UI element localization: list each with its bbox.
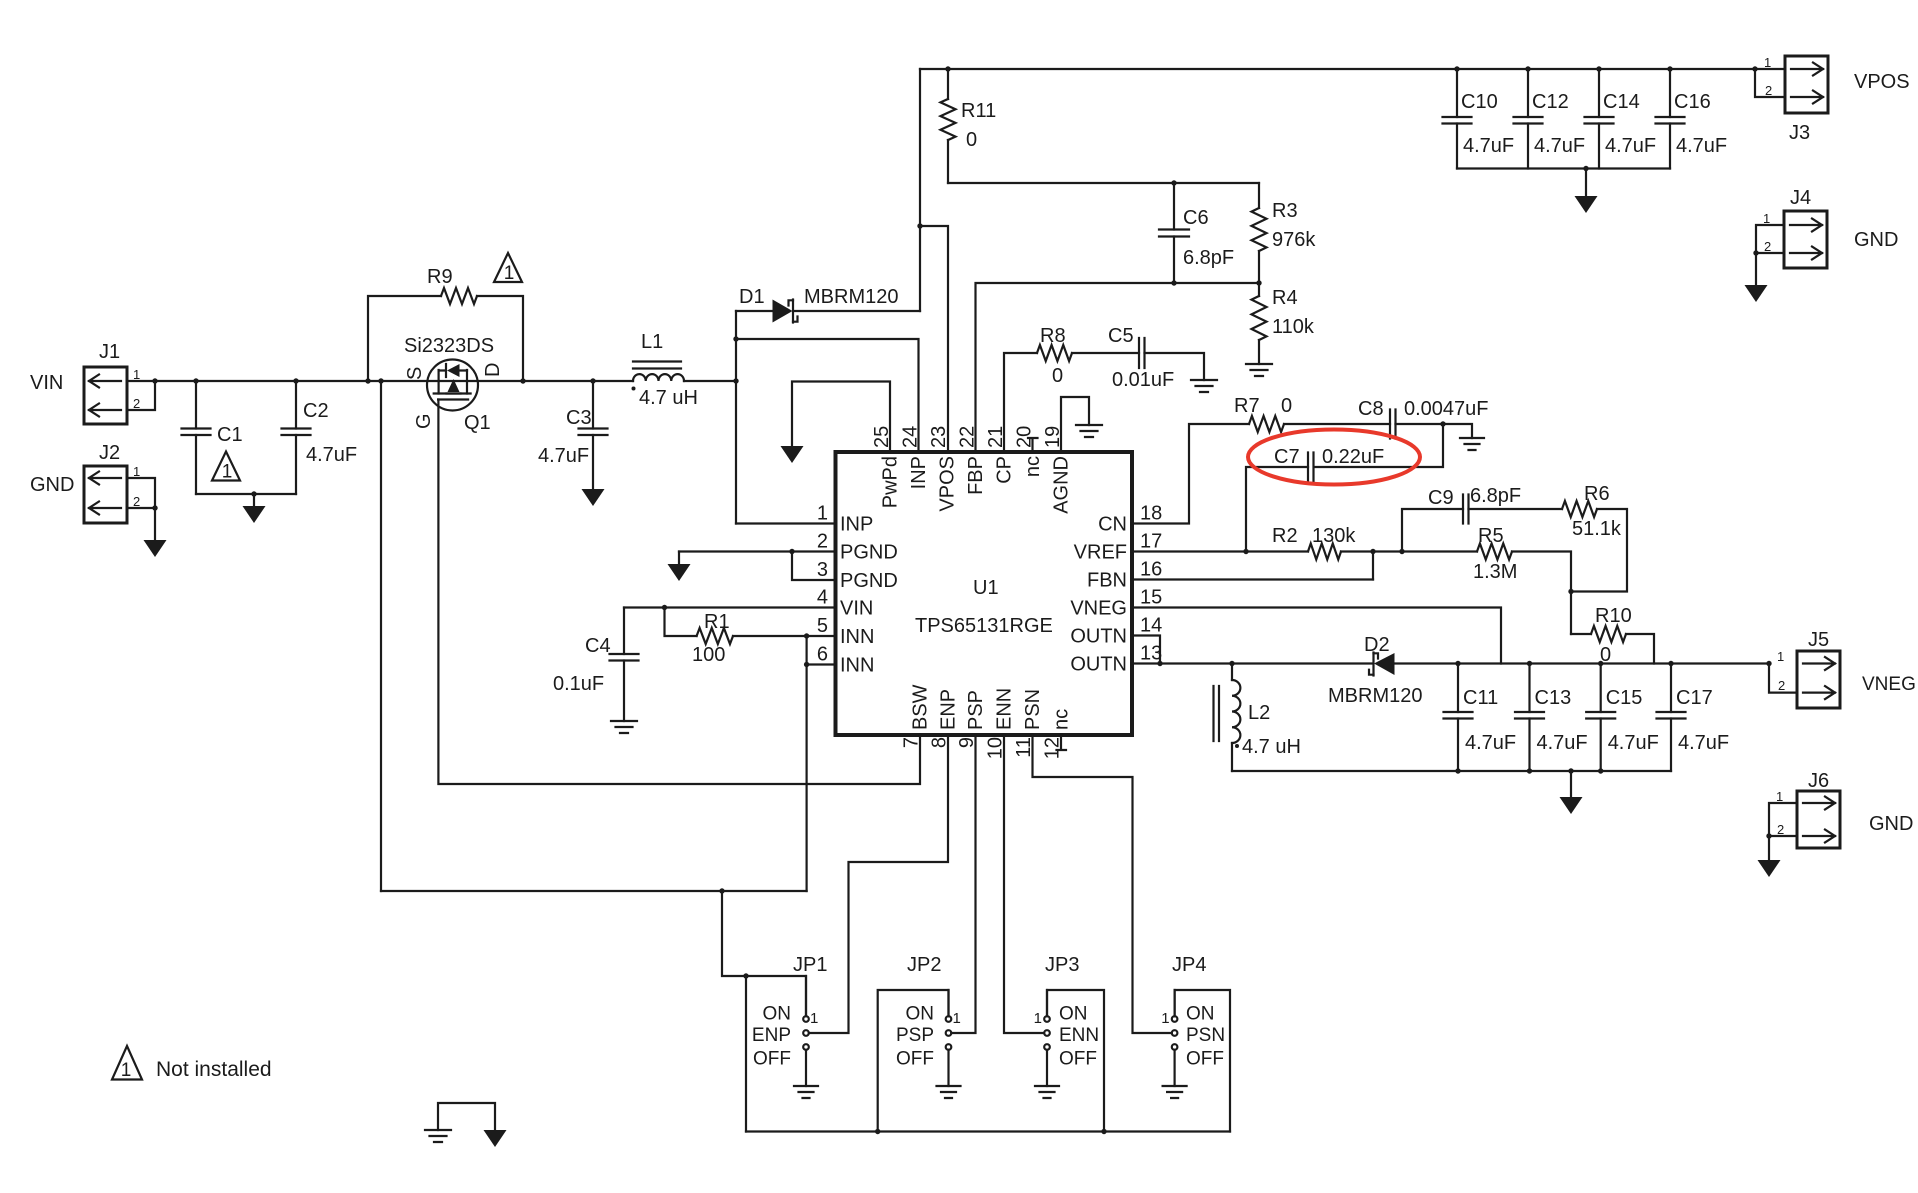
wire C8 to ground: [1396, 424, 1473, 438]
node INN pin6 tap: [804, 662, 809, 667]
node C2 tap: [293, 378, 298, 383]
wire VPOS gnd stub: [1585, 169, 1587, 197]
wire FBN drop: [1372, 552, 1374, 580]
svg-text:CP: CP: [994, 456, 1016, 484]
ground (IEC) R4: [1246, 364, 1272, 376]
connector J4: [1763, 187, 1898, 268]
transistor Q1 Si2323DS: [427, 360, 478, 411]
ground (IEC) JP3 OFF: [1035, 1086, 1059, 1098]
node C12 top tap: [1525, 66, 1530, 71]
wire VNEG caps ground rail: [1232, 770, 1671, 772]
svg-text:R2: R2: [1272, 525, 1298, 547]
node VPOS pin jog: [917, 223, 922, 228]
svg-text:C13: C13: [1535, 687, 1572, 709]
svg-text:C4: C4: [585, 635, 611, 657]
svg-text:20: 20: [1014, 426, 1036, 448]
wire C1 bottom lead: [195, 435, 197, 494]
svg-text:INP: INP: [840, 514, 873, 536]
svg-text:6: 6: [817, 644, 828, 666]
wire JP4 feed: [1175, 990, 1230, 1132]
svg-text:PwPd: PwPd: [880, 456, 902, 508]
wire INN pin5 link: [807, 635, 836, 637]
svg-text:3: 3: [817, 559, 828, 581]
op-amp U1 TPS65131RGE (IC body): [836, 452, 1133, 735]
wire C16 bottom lead: [1669, 124, 1671, 169]
svg-text:R10: R10: [1595, 605, 1632, 627]
svg-text:JP2: JP2: [907, 954, 941, 976]
ground (arrow) PwPd: [781, 446, 804, 463]
svg-text:1: 1: [817, 503, 828, 525]
capacitor C16: [1656, 117, 1685, 124]
wire PGND ground stub: [678, 552, 680, 565]
ground (IEC) JP2 OFF: [937, 1086, 961, 1098]
connector J2: [30, 442, 140, 523]
svg-text:0: 0: [1052, 365, 1063, 387]
svg-text:S: S: [404, 367, 426, 380]
svg-text:C3: C3: [566, 407, 592, 429]
ground (arrow) J4: [1745, 285, 1768, 302]
svg-text:4.7uF: 4.7uF: [1608, 732, 1659, 754]
svg-text:GND: GND: [1869, 813, 1913, 835]
svg-text:ENP: ENP: [752, 1025, 791, 1046]
ground (IEC) C5: [1191, 380, 1217, 392]
resistor R11: [941, 99, 956, 140]
wire VNEG pin line: [1132, 608, 1501, 664]
wire J6 pin1 jog: [1769, 803, 1797, 836]
node cap gnd tap: [1598, 768, 1603, 773]
svg-text:nc: nc: [1022, 456, 1044, 477]
svg-text:JP3: JP3: [1045, 954, 1079, 976]
wire INP pin24 link: [736, 339, 919, 452]
wire INN rail: [805, 636, 807, 891]
svg-text:PGND: PGND: [840, 542, 898, 564]
pin 12 nc stub: [1057, 735, 1067, 750]
resistor R3: [1252, 208, 1267, 251]
wire pin1 INP link: [736, 522, 836, 524]
resistor R1: [697, 628, 733, 644]
wire C7 right leg: [1314, 424, 1443, 467]
svg-text:100: 100: [692, 644, 725, 666]
wire C9 to R6: [1469, 508, 1563, 510]
capacitor C12: [1514, 117, 1543, 124]
svg-text:22: 22: [957, 426, 979, 448]
wire R10 right lead: [1626, 634, 1654, 664]
svg-text:GND: GND: [1854, 229, 1898, 251]
svg-text:1: 1: [953, 1010, 961, 1027]
svg-text:PSN: PSN: [1186, 1025, 1225, 1046]
svg-text:PGND: PGND: [840, 570, 898, 592]
svg-text:1: 1: [1764, 55, 1771, 70]
node C1 tap: [193, 378, 198, 383]
node J1 junction: [152, 378, 157, 383]
svg-text:2: 2: [1777, 822, 1784, 837]
wire C16 top lead: [1669, 69, 1671, 117]
wire AGND pin 19: [1061, 397, 1089, 452]
ground (IEC) C4: [611, 721, 637, 733]
svg-text:R11: R11: [961, 100, 996, 122]
wire C10 bottom lead: [1456, 124, 1458, 169]
connector J5: [1777, 629, 1916, 708]
svg-text:C9: C9: [1428, 487, 1454, 509]
wire OUTN pin14 jog: [1132, 636, 1160, 664]
svg-text:PSN: PSN: [1022, 689, 1044, 730]
ground (arrow) C3: [582, 489, 605, 506]
svg-text:1: 1: [810, 1010, 818, 1027]
svg-text:4.7uF: 4.7uF: [1537, 732, 1588, 754]
capacitor C3: [579, 429, 608, 436]
svg-text:D1: D1: [739, 286, 765, 308]
svg-text:4: 4: [817, 587, 828, 609]
svg-text:4.7uF: 4.7uF: [1605, 135, 1656, 157]
svg-text:0.22uF: 0.22uF: [1322, 446, 1384, 468]
node R11 top tap: [945, 66, 950, 71]
wire C17 top lead: [1670, 664, 1672, 713]
svg-text:JP4: JP4: [1172, 954, 1206, 976]
wire JP1 feed: [722, 891, 806, 1016]
svg-text:4.7uF: 4.7uF: [1463, 135, 1514, 157]
node JP rail tap: [743, 973, 748, 978]
wire C1 top lead: [195, 381, 197, 429]
node INN pin5 tap: [804, 633, 809, 638]
svg-text:J2: J2: [99, 442, 120, 464]
svg-text:R1: R1: [704, 611, 730, 633]
wire INN pin6 link: [807, 663, 836, 665]
svg-text:C5: C5: [1108, 325, 1134, 347]
jumper JP1: [803, 976, 809, 1086]
svg-text:976k: 976k: [1272, 229, 1316, 251]
ground (IEC) AGND: [1076, 425, 1102, 437]
wire L2 bottom lead: [1231, 743, 1233, 771]
wire C10 top lead: [1456, 69, 1458, 117]
node VIN drop tap: [378, 378, 383, 383]
svg-text:R3: R3: [1272, 200, 1298, 222]
node C10 top tap: [1454, 66, 1459, 71]
node C9 tap: [1399, 549, 1404, 554]
resistor R8: [1037, 345, 1072, 361]
wire CN link: [1132, 424, 1249, 524]
wire R2 right: [1341, 550, 1477, 552]
node C1/C2 gnd junction: [251, 491, 256, 496]
capacitor C13: [1515, 712, 1544, 719]
wire C13 bottom lead: [1528, 719, 1530, 772]
wire C6 top lead: [1173, 183, 1175, 230]
ground (IEC) C8: [1460, 438, 1484, 450]
svg-text:1: 1: [133, 367, 140, 382]
svg-text:OFF: OFF: [896, 1049, 934, 1070]
ground (arrow) J6: [1758, 860, 1781, 877]
capacitor C15: [1586, 712, 1615, 719]
wire JP2 feed: [878, 990, 949, 1132]
svg-text:C8: C8: [1358, 398, 1384, 420]
inductor L2: [1214, 680, 1241, 748]
svg-text:VNEG: VNEG: [1862, 674, 1916, 695]
node boost node (main): [733, 378, 738, 383]
svg-text:VNEG: VNEG: [1070, 598, 1127, 620]
svg-text:4.7uF: 4.7uF: [306, 444, 357, 466]
svg-text:19: 19: [1042, 426, 1064, 448]
svg-text:C17: C17: [1676, 687, 1713, 709]
wire C12 top lead: [1527, 69, 1529, 117]
svg-text:R5: R5: [1478, 525, 1504, 547]
svg-text:D: D: [482, 363, 504, 377]
wire C2 bottom lead: [295, 435, 297, 494]
wire JP rail drop: [745, 976, 747, 1132]
connector J3: [1764, 55, 1910, 144]
svg-text:2: 2: [1764, 239, 1771, 254]
node C7/C8 junction: [1440, 421, 1445, 426]
svg-text:16: 16: [1140, 559, 1162, 581]
wire PGND pin3 jog: [792, 552, 836, 581]
wire C1-C2 ground link: [196, 493, 296, 495]
svg-text:C7: C7: [1274, 446, 1300, 468]
resistor R2: [1308, 544, 1341, 560]
node JP2 rail tap: [875, 1129, 880, 1134]
wire VPOS top rail: [920, 68, 1785, 70]
wire C9 riser: [1402, 509, 1463, 552]
svg-text:C15: C15: [1606, 687, 1643, 709]
node J4 junction: [1753, 250, 1758, 255]
wire C4 bottom lead: [623, 661, 625, 722]
svg-text:D2: D2: [1364, 634, 1390, 656]
not-installed marker C1: [212, 452, 240, 483]
svg-text:CN: CN: [1098, 514, 1127, 536]
wire J5 pin2 jog: [1769, 664, 1797, 693]
svg-text:BSW: BSW: [910, 684, 932, 730]
svg-text:1: 1: [222, 462, 233, 483]
wire C4 top lead: [623, 608, 625, 655]
svg-text:R9: R9: [427, 266, 453, 288]
capacitor C5: [1139, 338, 1145, 368]
node J5 pin2 jog: [1766, 661, 1771, 666]
capacitor C2: [282, 429, 311, 436]
svg-text:J1: J1: [99, 341, 120, 363]
ground (IEC) tie: [425, 1130, 451, 1142]
wire C13 top lead: [1528, 664, 1530, 713]
wire VIN drop: [380, 381, 382, 891]
svg-text:ON: ON: [906, 1004, 935, 1025]
svg-text:J5: J5: [1808, 629, 1829, 651]
node FBN tap: [1370, 549, 1375, 554]
svg-text:1: 1: [1777, 649, 1784, 664]
jumper JP3: [1044, 990, 1050, 1086]
node C16 top tap: [1667, 66, 1672, 71]
svg-text:VIN: VIN: [840, 598, 873, 620]
svg-text:R6: R6: [1584, 483, 1610, 505]
wire PSN wire: [1033, 735, 1172, 1033]
svg-text:OUTN: OUTN: [1070, 654, 1127, 676]
svg-text:1: 1: [1161, 1010, 1169, 1027]
node C3 tap: [590, 378, 595, 383]
wire VPOS pin 23 jog: [920, 226, 948, 452]
wire VIN bottom run: [381, 890, 807, 892]
node VPOS gnd stub tap: [1583, 166, 1588, 171]
node pin14 junction: [1157, 661, 1162, 666]
svg-text:VPOS: VPOS: [1854, 71, 1910, 93]
wire C11 bottom lead: [1457, 719, 1459, 772]
svg-text:1: 1: [121, 1060, 132, 1081]
ground (arrow) tie: [484, 1130, 507, 1147]
svg-text:nc: nc: [1051, 709, 1073, 730]
wire R11 bottom lead: [947, 140, 949, 183]
svg-text:0: 0: [966, 129, 977, 151]
svg-text:GND: GND: [30, 474, 74, 496]
svg-text:L1: L1: [641, 331, 663, 353]
svg-text:2: 2: [133, 396, 140, 411]
svg-text:6.8pF: 6.8pF: [1183, 247, 1234, 269]
wire C5 to ground: [1145, 353, 1205, 380]
jumper JP2: [946, 990, 952, 1086]
node JP3 rail tap: [1101, 1129, 1106, 1134]
wire R3 bottom lead: [1258, 251, 1260, 283]
svg-text:Si2323DS: Si2323DS: [404, 335, 494, 357]
svg-text:FBP: FBP: [965, 456, 987, 495]
wire JP3 feed: [1047, 990, 1104, 1132]
node JP riser tap: [719, 888, 724, 893]
svg-text:Not installed: Not installed: [156, 1058, 272, 1081]
svg-text:VIN: VIN: [30, 372, 63, 394]
highlight ellipse around C7: [1248, 430, 1420, 485]
wire R3 top lead: [1258, 183, 1260, 208]
svg-text:INP: INP: [908, 456, 930, 489]
pin 20 nc stub: [1028, 438, 1038, 452]
capacitor C4: [610, 654, 639, 661]
svg-text:JP1: JP1: [793, 954, 827, 976]
wire R11 top lead: [947, 69, 949, 99]
wire J6 pin2 stub: [1769, 835, 1797, 837]
wire J6 ground stub: [1768, 836, 1770, 860]
wire ENN wire: [1004, 735, 1044, 1033]
node cap gnd tap: [1455, 768, 1460, 773]
wire PSP wire: [951, 735, 975, 1033]
svg-text:G: G: [413, 413, 435, 429]
svg-text:INN: INN: [840, 626, 874, 648]
wire R7 to C8: [1284, 423, 1390, 425]
ground (IEC) JP4 OFF: [1163, 1086, 1187, 1098]
wire R10 left lead: [1571, 633, 1591, 635]
node C14 top tap: [1596, 66, 1601, 71]
wire J2 ground stub: [154, 508, 156, 540]
svg-text:U1: U1: [973, 577, 999, 599]
capacitor C17: [1657, 712, 1686, 719]
capacitor C7: [1308, 453, 1314, 482]
wire VIN pin4 line: [624, 606, 836, 608]
node C6 top tap: [1171, 180, 1176, 185]
wire C3 bottom lead: [592, 435, 594, 489]
diode D2 MBRM120: [1369, 653, 1395, 676]
svg-text:C12: C12: [1532, 91, 1569, 113]
svg-text:C10: C10: [1461, 91, 1498, 113]
svg-text:2: 2: [1778, 678, 1785, 693]
svg-text:OFF: OFF: [753, 1049, 791, 1070]
ground (arrow) J2: [144, 540, 167, 557]
node R1 tap: [662, 605, 667, 610]
svg-text:INN: INN: [840, 655, 874, 677]
svg-text:21: 21: [985, 426, 1007, 448]
wire PGND pin2 line: [679, 550, 836, 552]
wire R4 top lead: [1258, 283, 1260, 296]
svg-text:AGND: AGND: [1051, 456, 1073, 514]
resistor R6: [1562, 501, 1597, 517]
wire PwPd ground link: [792, 382, 890, 453]
wire R1 right lead: [733, 635, 807, 637]
svg-text:PSP: PSP: [896, 1025, 934, 1046]
wire R9 left leg: [368, 296, 441, 381]
wire C1/C2 ground stub: [253, 494, 255, 506]
node C7 tap on VREF: [1243, 549, 1248, 554]
svg-text:FBN: FBN: [1087, 570, 1127, 592]
not-installed marker R9: [494, 253, 522, 284]
svg-text:ON: ON: [763, 1004, 792, 1025]
svg-text:R4: R4: [1272, 287, 1298, 309]
svg-text:4.7 uH: 4.7 uH: [1242, 736, 1301, 758]
node R3/R4 junction: [1256, 280, 1261, 285]
wire J1 pin2 jog: [127, 381, 155, 410]
wire C15 top lead: [1600, 664, 1602, 713]
svg-text:18: 18: [1140, 503, 1162, 525]
wire J3 pin2 jog: [1755, 69, 1785, 97]
svg-text:C16: C16: [1674, 91, 1711, 113]
wire C11 top lead: [1457, 664, 1459, 713]
wire VPOS caps ground rail: [1457, 167, 1670, 169]
wire switch node to L1 output: [684, 380, 736, 382]
node C15 top tap: [1598, 661, 1603, 666]
wire ENP wire: [809, 735, 948, 1033]
wire R5 right: [1512, 552, 1571, 635]
wire boost node riser: [735, 311, 737, 524]
resistor R9: [441, 288, 477, 304]
svg-text:ENN: ENN: [1059, 1025, 1099, 1046]
wire JP bottom rail: [746, 1130, 1230, 1132]
svg-text:110k: 110k: [1272, 316, 1315, 338]
svg-text:6.8pF: 6.8pF: [1470, 485, 1521, 507]
wire R6 return: [1571, 509, 1627, 592]
svg-text:R8: R8: [1040, 325, 1066, 347]
capacitor C8: [1390, 410, 1396, 439]
wire feedback top rail: [948, 182, 1259, 184]
resistor R7: [1249, 416, 1284, 432]
svg-text:130k: 130k: [1312, 525, 1356, 547]
resistor R10: [1591, 626, 1626, 642]
node J3 pin2 jog: [1752, 66, 1757, 71]
svg-text:24: 24: [900, 426, 922, 448]
svg-text:5: 5: [817, 615, 828, 637]
wire C14 bottom lead: [1598, 124, 1600, 169]
connector J6: [1776, 770, 1913, 848]
svg-text:15: 15: [1140, 587, 1162, 609]
svg-text:MBRM120: MBRM120: [804, 286, 898, 308]
svg-text:17: 17: [1140, 531, 1162, 553]
node R6 junction: [1568, 589, 1573, 594]
svg-text:4.7uF: 4.7uF: [1676, 135, 1727, 157]
svg-text:2: 2: [817, 531, 828, 553]
node boost node (INP link): [733, 336, 738, 341]
svg-text:OFF: OFF: [1186, 1049, 1224, 1070]
node C13 top tap: [1527, 661, 1532, 666]
svg-text:25: 25: [871, 426, 893, 448]
node C17 top tap: [1668, 661, 1673, 666]
wire R1 left leg: [665, 608, 697, 637]
wire VIN main: [127, 380, 633, 382]
ground (arrow) PGND: [668, 564, 691, 581]
capacitor C6: [1159, 230, 1189, 237]
svg-text:1: 1: [1763, 211, 1770, 226]
node J6 junction: [1766, 833, 1771, 838]
wire J2 pin1 jog: [127, 478, 155, 508]
wire R4 bottom lead: [1258, 340, 1260, 364]
wire C14 top lead: [1598, 69, 1600, 117]
svg-text:1: 1: [1776, 789, 1783, 804]
wire C2 top lead: [295, 381, 297, 429]
